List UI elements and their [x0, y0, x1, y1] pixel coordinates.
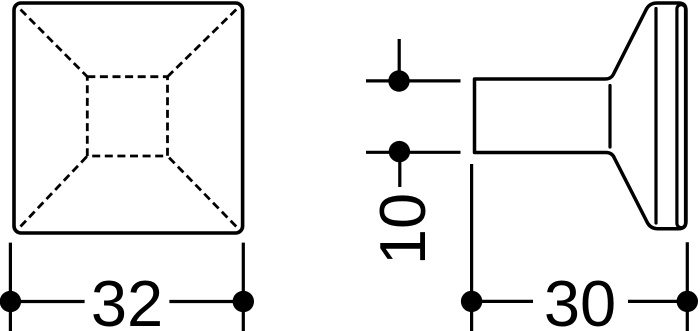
- dim 30 left dot: [461, 291, 482, 312]
- dim 32 right extension line: [242, 243, 245, 331]
- diagonal edge top-left (dashed): [21, 10, 88, 77]
- side view knob outline: [475, 3, 687, 229]
- diagonal edge bottom-left (dashed): [21, 156, 88, 227]
- dim 30 line left segment: [472, 300, 533, 303]
- dim 32 left extension line: [9, 243, 12, 331]
- front view outer square: [14, 3, 243, 233]
- dim 32 line left segment: [10, 300, 84, 303]
- dim 10 lower dot: [389, 141, 410, 162]
- dim 10 upper stub: [398, 39, 401, 81]
- svg-text:32: 32: [91, 267, 163, 331]
- dim 10 lower stub: [398, 152, 401, 187]
- dim 32 right dot: [233, 291, 254, 312]
- neck edge line: [608, 86, 611, 148]
- dim 30 line right segment: [628, 300, 687, 303]
- dim 32 left dot: [0, 291, 21, 312]
- dim 32 line right segment: [169, 300, 243, 303]
- face edge line: [654, 9, 657, 224]
- dim 10 lower leader: [366, 151, 461, 154]
- dim 30 right dot: [677, 291, 698, 312]
- inner square (hidden edge, dashed): [87, 77, 167, 156]
- svg-text:30: 30: [544, 267, 616, 331]
- dim 10 upper leader: [366, 79, 461, 82]
- svg-text:10: 10: [366, 193, 439, 265]
- dim 30 right extension line: [686, 242, 689, 331]
- dim 30 left extension line: [470, 164, 473, 331]
- face cap inner line: [677, 5, 686, 228]
- diagonal edge bottom-right (dashed): [168, 156, 237, 227]
- dim 10 upper dot: [388, 70, 409, 91]
- diagonal edge top-right (dashed): [168, 10, 237, 77]
